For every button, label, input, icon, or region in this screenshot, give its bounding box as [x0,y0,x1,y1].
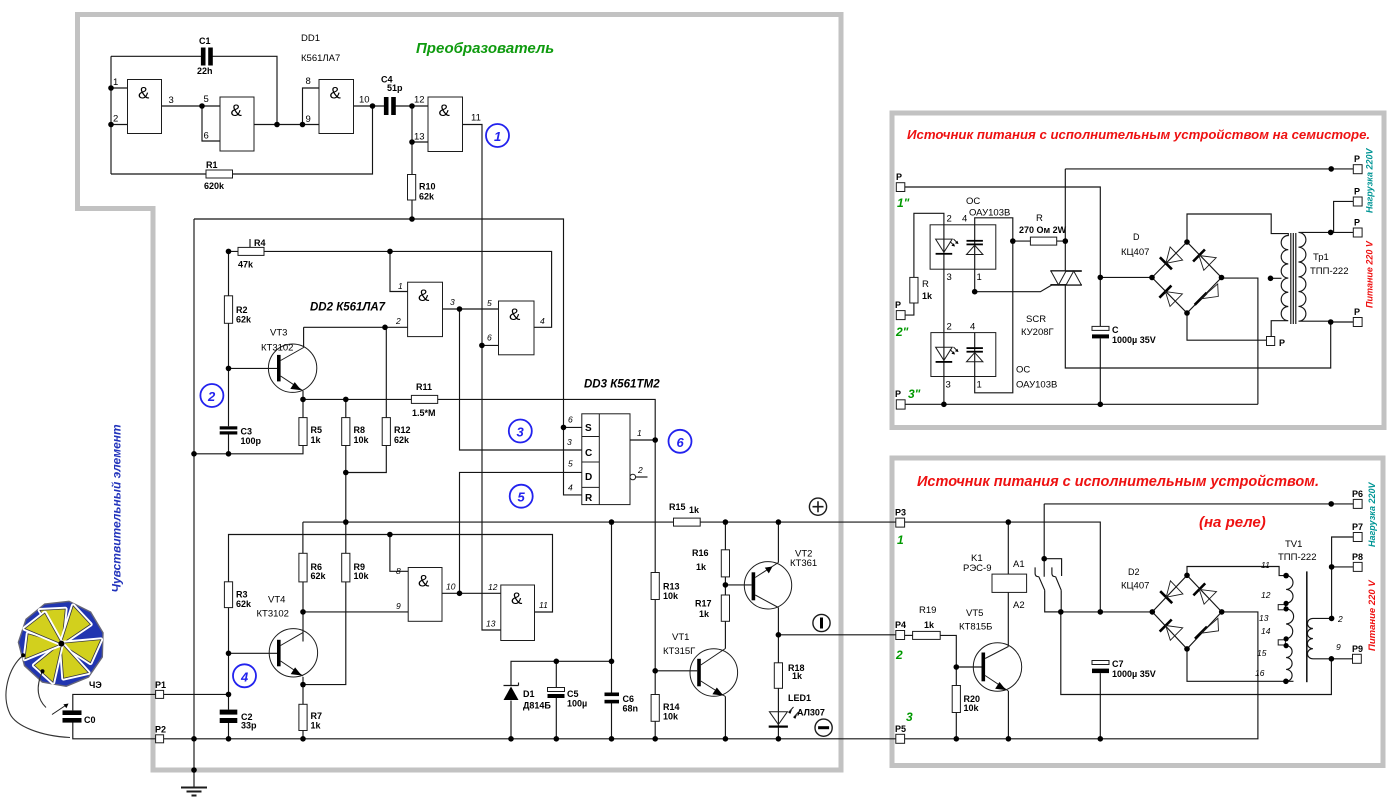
wire gate G pin8 drop [390,535,408,572]
svg-text:10k: 10k [964,703,980,713]
svg-text:2: 2 [113,114,118,125]
svg-text:4: 4 [240,670,249,685]
wire contacts feed line [1044,504,1353,577]
svg-text:11: 11 [471,113,481,124]
svg-text:D2: D2 [1128,567,1140,577]
terminal P (bridge bottom) [1267,337,1286,349]
svg-text:VT5: VT5 [966,608,983,619]
resistor R 270 Om 2W [1019,213,1067,245]
svg-text:VT3: VT3 [270,328,287,339]
svg-text:R3: R3 [236,590,248,600]
svg-text:ОС: ОС [966,196,980,207]
wire gate C pin8 tie [303,88,320,125]
transformer Tr1 primary coil (left) [1271,234,1288,337]
svg-text:АЛ307: АЛ307 [797,708,825,718]
resistor R10 62k [408,175,436,202]
wire C6 bottom [611,703,613,739]
wire C0 bottom to P2 [73,722,156,739]
resistor R8 10k [342,418,370,446]
OC1 pin labels [947,214,982,284]
svg-text:3: 3 [567,437,572,447]
svg-text:P8: P8 [1352,552,1363,562]
svg-text:6: 6 [677,435,685,450]
wire R4 trimmer tick [249,239,251,247]
bridge D diode BR [1195,284,1219,305]
svg-text:6: 6 [204,131,209,142]
svg-text:5: 5 [204,94,209,105]
svg-text:51p: 51p [387,83,403,93]
wire gate E pin1 drop [390,251,408,291]
svg-text:5: 5 [568,459,573,469]
svg-text:РЭС-9: РЭС-9 [963,563,991,574]
resistor R20 10k [952,686,980,714]
svg-text:3: 3 [947,272,952,283]
OC2 led [936,333,959,377]
wire OC1 pin1 to gate node [974,269,976,292]
svg-text:D1: D1 [523,689,535,699]
Tr1 core [1291,233,1296,324]
wire P7 P8 to pin 2 [1332,537,1354,618]
resistor R16 1k [692,548,730,577]
resistor R3 62k [224,582,252,609]
terminal P (secondary mid) [1353,218,1362,238]
diode bridge D (diamond) [1152,242,1222,313]
node 6 circle [669,430,692,453]
resistor R14 10k [651,695,679,722]
wire OC1 pin3 to OC2 pin2 (long vertical) [943,269,945,332]
transistor VT3 KT3102 [261,328,317,393]
svg-text:&: & [330,84,342,103]
terminal P2 [155,725,166,743]
svg-text:62k: 62k [419,192,435,202]
wire C1 top loop [111,56,277,124]
resistor R6 62k [299,553,327,582]
svg-text:DD1: DD1 [301,33,320,44]
svg-text:11: 11 [539,600,548,610]
junction dots bottom-right block [954,501,1335,741]
svg-text:R11: R11 [416,382,432,392]
svg-text:6: 6 [568,415,573,425]
svg-text:Питание 220 V: Питание 220 V [1367,580,1378,651]
svg-text:P3: P3 [895,508,906,518]
svg-text:1: 1 [494,129,501,144]
pin labels DD1 [113,76,481,143]
wire DD1 input left vertical [110,56,112,174]
wire gate H out11 feedback to R3 [229,535,553,613]
svg-text:9: 9 [1336,642,1341,652]
terminal P5 [895,724,906,743]
wire C5 C6 D1 top line [511,522,612,692]
wire pin13 tie / R10 column [412,106,428,219]
wire VT3 collector to gate E pin2 [304,327,408,347]
wire R9 bottom loop [303,582,346,685]
svg-text:DD3 К561ТМ2: DD3 К561ТМ2 [584,379,660,391]
mid terminal circle [813,614,830,631]
resistor R2 62k [224,296,252,325]
svg-text:11: 11 [1261,560,1270,570]
svg-text:P: P [1354,154,1360,164]
svg-text:VT1: VT1 [672,632,689,643]
top-right block gray frame [892,113,1384,428]
wire R3 to VT4 base and C2 [228,608,230,695]
svg-text:R7: R7 [311,711,323,721]
svg-text:К561ЛА7: К561ЛА7 [301,53,340,64]
svg-text:КТ815Б: КТ815Б [959,622,992,633]
terminal P8 [1352,552,1363,571]
wire bridge bottom to P [1187,313,1267,340]
wire gate D out11 / node1 long vertical to gate H pin13 [463,125,501,631]
capacitor C5 100u electrolytic [548,688,588,709]
terminal P (2") [895,300,905,320]
svg-text:1000µ 35V: 1000µ 35V [1112,669,1156,679]
svg-text:1: 1 [398,281,403,291]
resistor R1 620k [204,160,233,191]
minus terminal circle [815,719,832,736]
wire VT5 emitter [1007,691,1009,739]
capacitor C3 100p [220,426,262,446]
wire C top branch to bridge left [1100,276,1152,278]
gate DD2.2 [499,301,535,355]
svg-text:2: 2 [395,316,401,326]
wire VT1 collector [724,621,726,648]
resistor R11 1.5M [411,382,437,418]
svg-text:Д814Б: Д814Б [523,701,551,711]
wire ground top rail [194,219,582,495]
svg-text:P: P [896,172,902,182]
wire ground stem [193,739,195,788]
svg-text:3: 3 [906,710,913,724]
svg-text:ОАУ103В: ОАУ103В [969,208,1010,219]
svg-text:Преобразователь: Преобразователь [416,40,554,57]
svg-text:68n: 68n [623,704,639,714]
svg-text:Тр1: Тр1 [1313,252,1329,263]
optocoupler OC1 box [930,225,996,269]
svg-text:&: & [509,305,521,324]
wire node3 to flipflop C input [460,309,582,450]
svg-text:2: 2 [637,465,643,475]
svg-text:47k: 47k [238,260,254,270]
wire P1 to C0 [73,694,156,710]
terminal P (primary bottom) [1353,307,1362,327]
svg-text:5: 5 [518,490,526,505]
svg-text:1.5*M: 1.5*M [412,408,436,418]
svg-text:6: 6 [487,333,492,343]
resistor R 1k (top right) [910,277,933,303]
LED1 AL307 [769,693,825,728]
wire secondary top to P pair [1331,201,1354,322]
svg-text:TV1: TV1 [1285,539,1302,550]
wire left long vertical [193,219,195,739]
resistor R13 10k [651,573,679,602]
wire bridge top to Tr1 primary top [1187,214,1280,242]
svg-text:&: & [439,101,451,120]
svg-text:3: 3 [450,297,455,307]
wire P1 line [164,693,229,695]
svg-text:Питание 220 V: Питание 220 V [1365,240,1375,308]
svg-text:R10: R10 [419,182,436,192]
wire D1 bottom [510,701,512,739]
svg-text:1: 1 [113,77,118,88]
svg-text:9: 9 [306,114,311,125]
svg-text:A1: A1 [1013,559,1025,570]
wire gate A out to gate B pin5 [162,105,221,107]
wire flipflop out1 [630,439,655,441]
wire VT3 base [229,367,278,369]
svg-text:R: R [922,279,929,290]
svg-text:C6: C6 [623,694,635,704]
wire sensor lead 2 (curved) [38,671,46,707]
wire VT3 emitter line with R11 [303,391,655,573]
svg-text:4: 4 [540,316,545,326]
wire R4 line to gate F out4 loop [229,251,552,327]
wire pin1 [111,87,128,89]
wire contacts bottom to D2 left [1045,611,1153,613]
wire C bottom [1099,338,1101,404]
svg-text:&: & [418,286,430,305]
svg-text:1k: 1k [922,291,933,301]
svg-text:R4: R4 [254,238,266,248]
svg-text:&: & [418,572,430,591]
svg-text:62k: 62k [236,315,252,325]
wire P4 to R19 [905,634,913,636]
svg-text:10k: 10k [354,435,370,445]
svg-text:1k: 1k [689,505,700,515]
bridge D2 diode TL [1160,581,1183,603]
svg-text:8: 8 [306,76,311,87]
svg-text:620k: 620k [204,181,225,191]
wire OC2 pin1 loop to R270 left node [975,241,1013,393]
node 5 circle [510,485,533,508]
svg-text:R5: R5 [311,425,323,435]
svg-text:1000µ 35V: 1000µ 35V [1112,335,1156,345]
svg-text:ЧЭ: ЧЭ [89,680,102,690]
svg-text:1: 1 [977,272,982,283]
transistor VT1 KT315G [663,632,738,697]
wire C7 bottom [1099,673,1101,739]
svg-text:Чувствительный элемент: Чувствительный элемент [110,424,124,593]
resistor R4 47k [238,238,266,270]
wire R1 feedback [111,106,373,174]
label Tr1 TPP-222 [1310,252,1348,277]
wire gate G out10 to gate H pin12 [442,592,501,594]
relay contact 2 [1052,567,1061,612]
svg-text:R1: R1 [206,160,218,170]
svg-text:10k: 10k [354,571,370,581]
wire R270 right to triac top column [1013,169,1066,271]
svg-text:10k: 10k [663,591,679,601]
svg-text:12: 12 [414,95,425,106]
resistor R5 1k [299,418,322,446]
svg-text:270 Ом 2W: 270 Ом 2W [1019,225,1067,235]
svg-text:100p: 100p [241,436,262,446]
junction dots top-right block [941,166,1334,407]
svg-text:4: 4 [962,214,967,225]
node 3 circle [509,420,532,443]
TV1 core [1306,571,1308,682]
wire gate E out3 to gate F pin5 [443,308,499,310]
OC2 photothyristor [967,333,983,377]
wire R6 top drop [302,522,304,553]
wire bottom rail top-right block [905,278,1258,404]
wire VT4 collector line to gate G pin9 [303,582,408,642]
capacitor C6 68n [605,693,639,714]
gate DD2.4 [501,585,535,641]
transistor VT4 KT3102 [257,595,318,678]
wire D2 bottom to TV1 pin16 [1187,649,1294,681]
TV1 tap 14-15 [1278,640,1285,645]
wire gate node to triac gate [975,285,1052,292]
capacitor C1 [197,36,213,76]
svg-text:(на реле): (на реле) [1199,514,1266,531]
wire OC2 pin3 to bottom rail [943,377,945,405]
bridge D2 diode BR [1195,618,1219,638]
terminal P (1") [896,172,905,192]
svg-text:P9: P9 [1352,644,1363,654]
svg-text:14: 14 [1261,626,1271,636]
svg-text:2: 2 [895,648,903,662]
svg-text:КТ315Г: КТ315Г [663,646,695,657]
TV1 tap 12-13 [1278,605,1285,610]
flipflop out2 bubble and stub [630,474,648,480]
terminal P6 [1352,489,1363,508]
wire R13 R14 column / VT1 base [655,600,697,739]
wire OC1 pin4 loop to R270 [975,218,1013,241]
diode bridge D2 (diamond) [1152,575,1221,649]
svg-text:D: D [1133,232,1140,242]
wire P1" to C top [905,187,1101,326]
main gray frame (L-shaped) [78,15,842,771]
svg-text:1k: 1k [699,609,710,619]
label D KC407 [1121,232,1149,258]
svg-text:1: 1 [637,428,642,438]
svg-text:2: 2 [1337,614,1343,624]
wire R8 column [345,399,347,553]
svg-text:8: 8 [396,566,401,576]
svg-text:1: 1 [897,533,904,547]
svg-text:ОС: ОС [1016,365,1030,376]
label D2 KC407 [1121,567,1149,592]
svg-text:P4: P4 [895,620,906,630]
svg-text:S: S [585,423,592,434]
svg-text:62k: 62k [236,599,252,609]
svg-text:13: 13 [486,619,496,629]
junction dots DD1 [108,85,415,222]
pin labels DD3 [567,415,643,493]
svg-text:P6: P6 [1352,489,1363,499]
gate DD1.4 [428,97,463,152]
Tr1 primary center tap [1268,276,1282,282]
transistor VT5 KT815B [959,608,1022,691]
svg-text:C3: C3 [241,427,253,437]
svg-text:&: & [138,84,150,103]
terminal P1 [155,680,166,698]
svg-text:D: D [585,472,592,483]
transformer TV1 secondary coil [1307,618,1331,658]
capacitor C0 (variable) [52,704,96,726]
capacitor C 1000u [1092,325,1156,345]
svg-text:C5: C5 [567,689,579,699]
wire VT2 collector / P4 line [778,608,896,635]
terminal P7 [1352,522,1363,542]
wire pin2 [111,124,128,126]
triac SCR KU208G [1021,271,1082,338]
svg-text:P: P [1354,307,1360,317]
terminal P (secondary upper) [1353,187,1362,207]
wire C3 bottom line [194,446,303,454]
svg-text:4: 4 [568,483,573,493]
transformer TV1 primary coil [1286,576,1294,682]
svg-text:1": 1" [897,196,910,210]
svg-text:Нагрузка 220V: Нагрузка 220V [1365,148,1375,213]
terminal P4 [895,620,906,640]
svg-text:2": 2" [895,325,909,339]
pin labels DD2 [395,281,548,629]
wire contact node to secondary return [1061,612,1332,695]
svg-text:100µ: 100µ [567,699,587,709]
node 2 circle [200,384,223,407]
label OC OAU103V (bottom) [1016,365,1057,391]
wire sensor lead 1 (curved) [6,655,70,737]
wire OC1 pin2 to R 1k [914,213,944,277]
wire D2 top to TV1 pin11 [1187,567,1286,576]
resistor R9 10k [342,553,370,582]
wire VT4 emitter / R7 column [302,677,304,739]
svg-text:C7: C7 [1112,659,1124,669]
svg-text:VT4: VT4 [268,595,285,606]
resistor R19 1k [913,605,941,639]
svg-text:&: & [231,101,243,120]
bridge D diode TR [1193,250,1216,271]
terminal P (3") [895,389,905,409]
wire C4 to gate D pin12 [396,105,429,107]
svg-text:33p: 33p [241,721,257,731]
ground symbol [181,788,207,796]
svg-text:Нагрузка 220V: Нагрузка 220V [1367,482,1377,547]
wire node1 branch to gate F pin6 [482,344,499,346]
wire plus rail [303,521,896,523]
junction dots middle section [191,249,781,773]
svg-text:КТ3102: КТ3102 [261,343,293,354]
terminal P (load top) [1353,154,1362,174]
svg-text:13: 13 [1259,613,1269,623]
sensor pinwheel disc [18,601,103,686]
svg-text:R12: R12 [394,425,411,435]
svg-text:R16: R16 [692,548,709,558]
svg-text:13: 13 [414,132,425,143]
bridge D diode TL [1160,247,1183,269]
sensor lead dots [21,653,44,673]
svg-text:4: 4 [970,322,975,333]
svg-text:R15: R15 [669,502,686,512]
gate DD1.3 [319,80,354,134]
svg-text:2: 2 [947,322,952,333]
svg-text:1: 1 [977,380,982,391]
wire flipflop S input [564,426,582,428]
svg-text:C: C [1112,325,1119,335]
svg-text:2: 2 [947,214,952,225]
svg-text:SCR: SCR [1026,314,1046,325]
svg-text:КУ208Г: КУ208Г [1021,327,1054,338]
node 1 circle [486,124,509,147]
svg-text:R8: R8 [354,425,366,435]
svg-text:62k: 62k [394,435,410,445]
svg-text:P1: P1 [155,680,166,690]
wire VT1 emitter [724,697,726,739]
wire load top line [1065,168,1353,170]
svg-text:DD2 К561ЛА7: DD2 К561ЛА7 [310,302,386,314]
flipflop DD3 [582,414,630,505]
wire triac bottom to transformer line [1065,285,1330,368]
